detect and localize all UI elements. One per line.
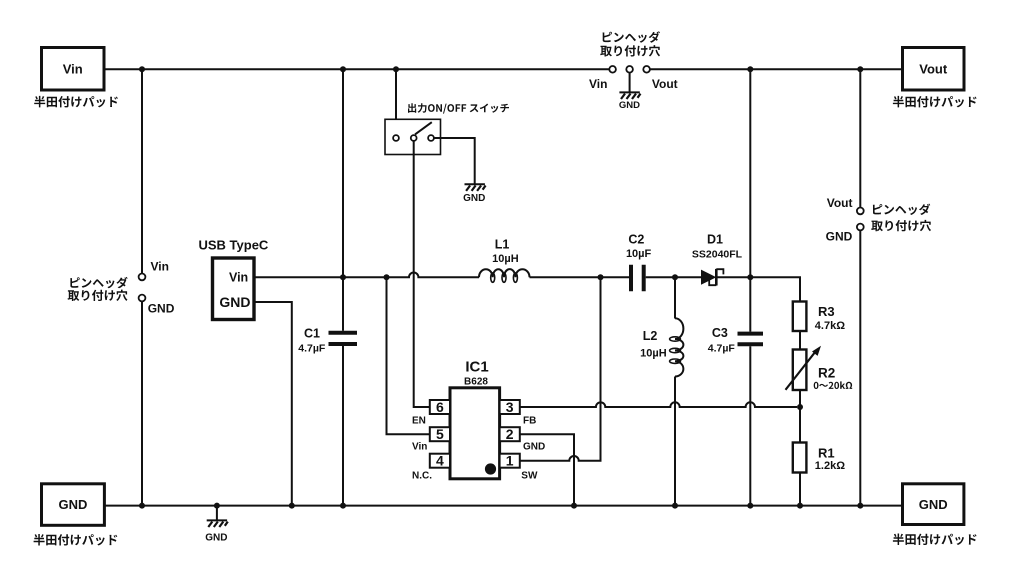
svg-text:IC1: IC1 [465, 359, 488, 376]
svg-text:GND: GND [919, 497, 948, 512]
node junction bottom rail x574 [571, 503, 577, 509]
svg-text:R2: R2 [818, 366, 835, 381]
label hanndazuke pad (bottom-left) [34, 534, 118, 546]
wire x750 top rail to main line [749, 69, 751, 277]
label output ON/OFF switch [408, 103, 509, 113]
node junction x343 on Vin line [340, 274, 346, 280]
pad Vout (solder pad) [903, 48, 965, 91]
svg-text:4.7µF: 4.7µF [708, 343, 736, 355]
svg-text:GND: GND [58, 497, 87, 512]
svg-text:D1: D1 [707, 232, 723, 246]
node junction top rail x750 [747, 66, 753, 72]
svg-text:GND: GND [205, 532, 227, 543]
wire R2 to FB node [799, 390, 801, 407]
node junction bottom rail x800 [797, 503, 803, 509]
label pin header mounting hole (right) [871, 204, 931, 232]
label R2 value 0-20k ohm [814, 381, 853, 389]
svg-text:GND: GND [523, 442, 545, 453]
node junction bottom rail x292 [289, 503, 295, 509]
svg-text:SW: SW [521, 471, 538, 482]
diode D1 SS2040FL (schottky) [692, 232, 743, 285]
inductor L2 [640, 277, 683, 505]
node junction node A x675 [672, 274, 678, 280]
op-amp/IC IC1 B628 [450, 359, 500, 479]
svg-text:Vin: Vin [412, 442, 427, 453]
svg-text:GND: GND [148, 301, 175, 315]
wire switch common down to EN [414, 141, 430, 407]
svg-text:1.2kΩ: 1.2kΩ [815, 460, 845, 472]
label pin header mounting hole (top) [600, 31, 660, 56]
pin header hole Vout (right) [857, 208, 864, 215]
svg-text:SS2040FL: SS2040FL [692, 248, 743, 260]
pin header hole GND (right) [857, 224, 864, 231]
wire x860 upper [859, 69, 861, 207]
svg-text:4.7µF: 4.7µF [298, 342, 326, 354]
pad GND right (solder pad) [903, 484, 964, 525]
svg-text:C2: C2 [628, 232, 644, 246]
svg-text:Vout: Vout [652, 77, 678, 91]
svg-text:FB: FB [523, 416, 536, 427]
pin header hole GND (left) [139, 295, 146, 302]
node junction bottom rail x343 [340, 503, 346, 509]
resistor R1 [793, 443, 845, 473]
svg-text:Vin: Vin [229, 270, 248, 284]
svg-text:1: 1 [506, 453, 514, 469]
svg-text:GND: GND [219, 294, 250, 310]
svg-text:2: 2 [506, 426, 514, 442]
pin 3 FB [500, 399, 537, 427]
pad Vin (solder pad) [42, 48, 105, 91]
svg-text:10µH: 10µH [640, 347, 667, 359]
svg-text:L2: L2 [643, 329, 658, 343]
wire GND pin2 down [520, 434, 574, 505]
wire USB Vin to L1 (hop over EN wire) [254, 273, 479, 278]
ground (switch) [463, 184, 486, 204]
ground (top header) [619, 92, 641, 110]
wire top rail right [650, 68, 903, 70]
switch SW1 box [385, 119, 441, 154]
pin header hole Vin (top) [609, 66, 616, 73]
wire L1 to C2 [530, 276, 630, 278]
pin 6 EN [412, 399, 450, 427]
svg-text:EN: EN [412, 416, 426, 427]
pin header hole Vin (left) [139, 274, 146, 281]
node junction bottom rail x675 [672, 503, 678, 509]
svg-text:Vin: Vin [63, 62, 83, 77]
wire D1 cathode to R3 corner [716, 277, 800, 301]
svg-text:C1: C1 [304, 326, 320, 340]
wire bottom ground rail [104, 505, 902, 507]
label hanndazuke pad (bottom-right) [893, 534, 977, 546]
svg-text:10µH: 10µH [492, 253, 519, 265]
pin header hole Vout (top) [643, 66, 650, 73]
wire R3 to R2 [799, 331, 801, 350]
wire C2 to D1 [646, 276, 701, 278]
node junction bottom rail x860 [857, 503, 863, 509]
label pin header mounting hole (left) [68, 277, 128, 301]
svg-text:4: 4 [436, 453, 444, 469]
svg-text:N.C.: N.C. [412, 471, 432, 482]
svg-text:USB TypeC: USB TypeC [198, 237, 268, 252]
svg-text:R3: R3 [818, 304, 835, 319]
svg-text:R1: R1 [818, 445, 835, 460]
wire R1 to ground rail [799, 473, 801, 506]
label hanndazuke pad (top-left) [34, 96, 118, 108]
inductor L1 [479, 237, 530, 282]
resistor R3 [793, 302, 845, 332]
node junction top rail x396 [393, 66, 399, 72]
pin 5 Vin [412, 426, 450, 452]
node junction bottom rail x142 [139, 503, 145, 509]
svg-text:GND: GND [463, 193, 485, 204]
node junction Vout node x750 [747, 274, 753, 280]
pin 1 SW [500, 453, 538, 482]
wire FB node to R1 [799, 407, 801, 443]
node junction FB node [797, 404, 803, 410]
wire x860 lower [859, 230, 861, 505]
wire x142 lower [141, 301, 143, 505]
svg-text:6: 6 [436, 399, 444, 415]
node junction top rail x343 [340, 66, 346, 72]
svg-text:Vin: Vin [151, 259, 169, 273]
pin 2 GND [500, 426, 546, 452]
node junction x386.5 on Vin line [384, 274, 390, 280]
resistor R2 (variable) [786, 346, 836, 390]
wire SW pin1 up to SW node (hop) [520, 277, 601, 461]
svg-text:B628: B628 [464, 376, 488, 387]
label hanndazuke pad (top-right) [893, 96, 977, 108]
svg-text:L1: L1 [495, 237, 510, 251]
wire FB pin3 to FB node (3 hops) [520, 402, 797, 407]
svg-text:C3: C3 [712, 326, 728, 340]
svg-text:5: 5 [436, 426, 444, 442]
capacitor C2 [626, 232, 652, 291]
switch lever [415, 122, 432, 134]
wire GND stub (top header) [629, 73, 631, 93]
capacitor C3 [708, 277, 763, 505]
svg-text:Vout: Vout [827, 196, 853, 210]
pad GND left (solder pad) [42, 484, 105, 526]
svg-text:GND: GND [619, 100, 640, 111]
wire switch pin1 from rail [395, 69, 397, 135]
node junction SW node x600.5 [598, 274, 604, 280]
node junction top rail x860 [857, 66, 863, 72]
svg-text:Vin: Vin [589, 77, 607, 91]
wire x142 upper [141, 69, 143, 273]
wire USB GND down [254, 302, 292, 506]
wire top rail left [104, 68, 609, 70]
svg-text:Vout: Vout [919, 62, 948, 77]
capacitor C1 [298, 69, 357, 505]
node junction bottom rail x750 [747, 503, 753, 509]
node junction top rail x142 [139, 66, 145, 72]
ground (bottom rail) [205, 506, 228, 544]
svg-text:GND: GND [826, 230, 853, 244]
wire Vin pin5 feed [387, 277, 430, 434]
node junction bottom rail x217 [214, 503, 220, 509]
wire switch pin3 to ground [434, 138, 475, 184]
svg-text:4.7kΩ: 4.7kΩ [815, 320, 845, 332]
pin header hole GND (top) [626, 66, 633, 73]
switch contacts [393, 135, 399, 141]
svg-text:3: 3 [506, 399, 514, 415]
svg-text:10µF: 10µF [626, 248, 652, 260]
pin 4 N.C. [412, 453, 450, 482]
connector USB TypeC [198, 237, 268, 319]
